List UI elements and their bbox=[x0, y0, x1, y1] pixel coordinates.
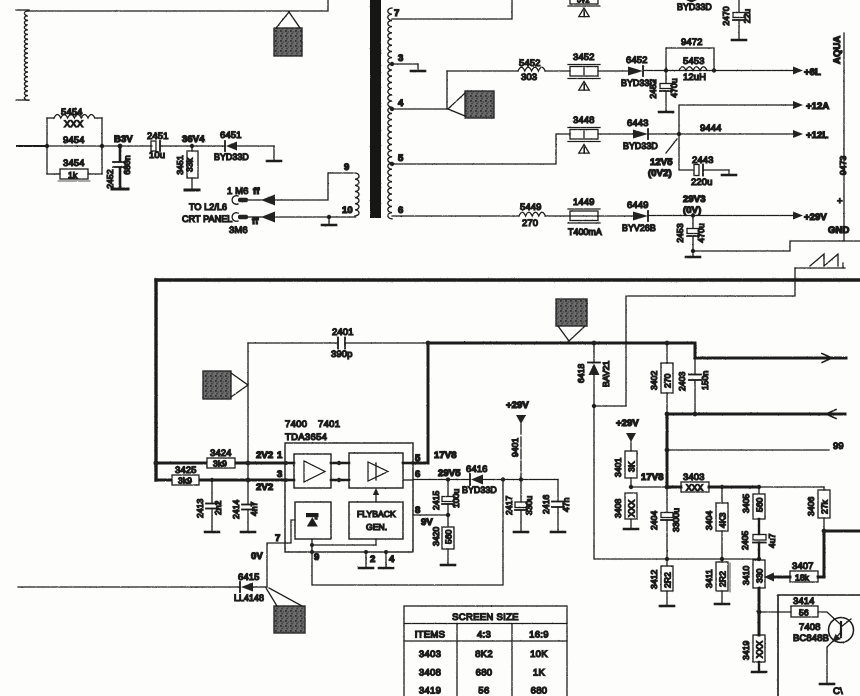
pin9 wire bbox=[312, 480, 503, 585]
svg-text:3403: 3403 bbox=[419, 649, 441, 660]
svg-text:TDA3654: TDA3654 bbox=[285, 432, 327, 443]
op-amp block 1 bbox=[294, 454, 331, 488]
winding L top-left primary bbox=[16, 10, 29, 100]
node + ground under coil10 line bbox=[327, 215, 331, 219]
wire vertical 2401 to pin1 bbox=[247, 343, 249, 504]
resistor 3410 330 bbox=[741, 560, 765, 635]
svg-text:33k: 33k bbox=[185, 157, 195, 172]
svg-text:6452: 6452 bbox=[626, 55, 648, 66]
wire pin4 up bbox=[446, 71, 448, 109]
wire thick flyback rail bbox=[428, 343, 846, 358]
svg-text:330: 330 bbox=[755, 568, 765, 583]
svg-text:3420: 3420 bbox=[431, 527, 441, 546]
fuse 3452 bbox=[568, 52, 600, 79]
svg-text:C\: C\ bbox=[833, 686, 843, 696]
svg-text:680n: 680n bbox=[122, 155, 132, 174]
svg-text:3451: 3451 bbox=[175, 155, 185, 174]
svg-text:6449: 6449 bbox=[627, 200, 649, 211]
svg-text:330u: 330u bbox=[524, 496, 534, 515]
wire pin5 to 3448 bbox=[392, 134, 570, 164]
pin8 wire bbox=[413, 514, 448, 516]
svg-text:2413: 2413 bbox=[195, 499, 205, 518]
svg-text:+29V: +29V bbox=[506, 400, 529, 411]
svg-text:5452: 5452 bbox=[519, 58, 541, 69]
svg-text:7400: 7400 bbox=[285, 419, 307, 430]
wire main line left bbox=[17, 145, 47, 147]
svg-text:9473: 9473 bbox=[838, 156, 848, 175]
svg-text:18k: 18k bbox=[795, 573, 810, 583]
svg-text:2414: 2414 bbox=[231, 500, 241, 519]
svg-text:270: 270 bbox=[522, 218, 538, 229]
node 29V3 bbox=[691, 213, 695, 217]
node 9444 bbox=[677, 132, 681, 136]
svg-text:3408: 3408 bbox=[613, 499, 623, 518]
node 2452 bbox=[664, 68, 668, 72]
resistor 3403 XXX bbox=[667, 472, 824, 493]
svg-text:GND: GND bbox=[828, 225, 849, 236]
svg-text:6: 6 bbox=[415, 469, 420, 480]
wire 99 line bbox=[667, 449, 829, 451]
svg-text:10u: 10u bbox=[149, 150, 165, 161]
svg-text:5: 5 bbox=[398, 153, 404, 164]
sawtooth waveform bbox=[795, 254, 845, 268]
svg-text:BYD33D: BYD33D bbox=[462, 485, 497, 495]
wire thick pin1 row bbox=[156, 462, 285, 465]
ground after 6451 bbox=[267, 146, 281, 161]
border thick left bbox=[154, 280, 157, 480]
wire 0V long bbox=[18, 586, 240, 588]
svg-text:100u: 100u bbox=[451, 489, 461, 508]
svg-text:4: 4 bbox=[389, 554, 395, 565]
svg-text:9472: 9472 bbox=[681, 37, 703, 48]
svg-text:10: 10 bbox=[342, 205, 353, 216]
inductor 5452 303 bbox=[518, 58, 545, 83]
svg-text:BC848B: BC848B bbox=[793, 633, 829, 644]
svg-text:BYD33D: BYD33D bbox=[214, 152, 249, 162]
pin6 wire row bbox=[413, 479, 470, 481]
resistor 3451 33k bbox=[175, 146, 199, 190]
capacitor 2404 3300u bbox=[649, 487, 681, 559]
svg-text:5: 5 bbox=[415, 453, 421, 464]
svg-text:3k9: 3k9 bbox=[213, 459, 227, 469]
diode 6449 BYV26B bbox=[622, 200, 656, 233]
wire thick pin3 row bbox=[156, 479, 285, 482]
shaded box F2 bbox=[556, 299, 587, 341]
svg-text:2452: 2452 bbox=[648, 79, 658, 98]
wire GND bbox=[693, 241, 860, 251]
svg-text:3412: 3412 bbox=[649, 570, 659, 589]
transformer core bbox=[370, 0, 381, 218]
svg-text:1k: 1k bbox=[68, 170, 78, 180]
svg-text:2V2: 2V2 bbox=[256, 482, 273, 493]
svg-text:3404: 3404 bbox=[704, 511, 714, 530]
svg-text:XXX: XXX bbox=[686, 483, 704, 493]
svg-text:ff: ff bbox=[253, 186, 260, 197]
svg-text:150n: 150n bbox=[700, 371, 710, 390]
svg-text:9444: 9444 bbox=[700, 123, 722, 134]
svg-text:9: 9 bbox=[344, 162, 349, 173]
svg-text:3419: 3419 bbox=[419, 686, 441, 696]
svg-text:220u: 220u bbox=[691, 177, 713, 188]
resistor 3420 560 bbox=[431, 515, 455, 565]
svg-text:ITEMS: ITEMS bbox=[415, 630, 446, 641]
svg-text:3402: 3402 bbox=[649, 371, 659, 390]
svg-text:0V2: 0V2 bbox=[577, 0, 590, 5]
svg-text:3407: 3407 bbox=[792, 561, 814, 572]
svg-text:BYD33D: BYD33D bbox=[677, 2, 712, 12]
svg-text:2451: 2451 bbox=[147, 131, 169, 142]
capacitor 2413 2n2 bbox=[195, 478, 223, 532]
resistor 3406 27k bbox=[806, 487, 830, 531]
svg-text:99: 99 bbox=[833, 441, 844, 452]
svg-text:2R2: 2R2 bbox=[663, 572, 673, 588]
table SCREEN SIZE bbox=[404, 606, 567, 696]
wire 6418 down-left rail bbox=[594, 406, 759, 559]
svg-text:8K2: 8K2 bbox=[475, 649, 493, 660]
svg-text:2n2: 2n2 bbox=[213, 500, 223, 515]
svg-text:6418: 6418 bbox=[576, 364, 586, 383]
svg-text:2443: 2443 bbox=[692, 155, 714, 166]
wire +12A bbox=[679, 105, 793, 134]
svg-text:2453: 2453 bbox=[675, 223, 685, 242]
capacitor 2414 4n7 bbox=[231, 500, 259, 532]
svg-text:BYV26B: BYV26B bbox=[622, 223, 656, 233]
svg-text:17V8: 17V8 bbox=[434, 450, 457, 461]
pin4 ground bbox=[384, 550, 388, 554]
svg-text:2404: 2404 bbox=[649, 511, 659, 530]
capacitor 2415 100u bbox=[431, 480, 461, 515]
transistor 7408 BC848B bbox=[793, 612, 854, 684]
svg-text:5453: 5453 bbox=[683, 56, 705, 67]
svg-text:+12A: +12A bbox=[806, 101, 829, 112]
svg-text:12V5: 12V5 bbox=[650, 157, 673, 168]
svg-text:2401: 2401 bbox=[332, 327, 354, 338]
svg-text:9V: 9V bbox=[421, 517, 433, 528]
svg-text:10K: 10K bbox=[530, 649, 548, 660]
svg-text:29V5: 29V5 bbox=[438, 468, 461, 479]
diode partial BYD33D top bbox=[677, 0, 712, 12]
svg-text:+29V: +29V bbox=[804, 212, 827, 223]
svg-text:3M6: 3M6 bbox=[229, 225, 248, 236]
svg-text:22u: 22u bbox=[742, 9, 752, 24]
svg-text:2470: 2470 bbox=[721, 6, 731, 25]
resistor 3408 XXX bbox=[613, 493, 638, 529]
svg-text:9: 9 bbox=[314, 552, 319, 563]
pin2 ground bbox=[364, 550, 368, 554]
svg-text:3452: 3452 bbox=[573, 52, 595, 63]
svg-text:3: 3 bbox=[398, 53, 403, 64]
svg-text:680: 680 bbox=[476, 668, 493, 679]
diode 6443 BYD33D bbox=[623, 118, 658, 151]
svg-text:T400mA: T400mA bbox=[568, 227, 602, 237]
node main-left bbox=[45, 144, 49, 148]
svg-text:+12L: +12L bbox=[806, 130, 828, 141]
warning triangle top bbox=[579, 8, 589, 17]
svg-text:3411: 3411 bbox=[704, 569, 714, 588]
svg-text:16:9: 16:9 bbox=[529, 630, 549, 641]
svg-text:29V3: 29V3 bbox=[683, 194, 706, 205]
power +29V arrow 3401 bbox=[616, 418, 639, 451]
inductor 5453 12uH bbox=[679, 56, 707, 83]
power +29V arrow 9401 bbox=[506, 400, 529, 479]
svg-text:XXX: XXX bbox=[627, 499, 637, 517]
wire to 3414 bbox=[759, 611, 791, 613]
svg-text:9454: 9454 bbox=[63, 135, 85, 146]
svg-text:(0V): (0V) bbox=[683, 205, 701, 216]
wire sawtooth feed bbox=[626, 268, 795, 406]
svg-text:SCREEN SIZE: SCREEN SIZE bbox=[452, 612, 519, 623]
svg-text:2415: 2415 bbox=[431, 491, 441, 510]
capacitor 2451 10u bbox=[147, 131, 169, 161]
svg-text:6451: 6451 bbox=[220, 130, 242, 141]
svg-text:LL4148: LL4148 bbox=[234, 593, 264, 603]
jumper 9472 bbox=[666, 37, 716, 73]
flyback gen block bbox=[349, 488, 403, 539]
arrow +8L bbox=[793, 67, 803, 75]
wire top-left to top edge bbox=[28, 0, 328, 11]
svg-text:GEN.: GEN. bbox=[366, 522, 387, 532]
svg-text:3425: 3425 bbox=[175, 465, 197, 476]
transformer secondary winding bbox=[388, 8, 392, 219]
svg-text:4:3: 4:3 bbox=[477, 630, 491, 641]
warning triangle 3448 bbox=[579, 145, 589, 154]
svg-text:2: 2 bbox=[370, 554, 375, 565]
svg-text:5454: 5454 bbox=[61, 107, 83, 118]
svg-text:3405: 3405 bbox=[741, 494, 751, 513]
diode 6451 BYD33D bbox=[214, 130, 274, 162]
svg-text:303: 303 bbox=[521, 72, 537, 83]
resistor 3419 XXX bbox=[741, 635, 766, 672]
svg-text:3403: 3403 bbox=[683, 472, 705, 483]
svg-text:680: 680 bbox=[531, 686, 548, 696]
capacitor 2452 470u bbox=[648, 71, 679, 112]
svg-text:+: + bbox=[837, 196, 843, 207]
svg-text:2403: 2403 bbox=[677, 372, 687, 391]
resistor 3411 2R2 bbox=[704, 559, 730, 604]
resistor 3454 1k bbox=[47, 158, 102, 181]
svg-text:1: 1 bbox=[277, 450, 283, 461]
svg-text:2405: 2405 bbox=[740, 531, 750, 550]
svg-text:3406: 3406 bbox=[806, 497, 816, 516]
svg-text:5449: 5449 bbox=[520, 202, 542, 213]
wire pin6 row bbox=[392, 215, 519, 217]
connector 1M6 to CRT panel bbox=[227, 173, 353, 206]
svg-text:3k9: 3k9 bbox=[178, 476, 192, 486]
wire thick 3402-3403 vertical bbox=[666, 414, 669, 487]
svg-text:7: 7 bbox=[394, 8, 399, 19]
shaded box A2 bbox=[203, 371, 248, 399]
capacitor 2443 220u bbox=[679, 134, 736, 188]
shaded box L2 bbox=[448, 91, 494, 118]
svg-text:3300u: 3300u bbox=[671, 508, 681, 532]
svg-text:3401: 3401 bbox=[613, 458, 623, 477]
resistor 3412 2R2 bbox=[649, 559, 674, 606]
capacitor 2401 390p bbox=[331, 327, 428, 360]
svg-text:56: 56 bbox=[478, 686, 489, 696]
border thick top bbox=[156, 278, 860, 281]
arrow +12L bbox=[793, 130, 803, 138]
svg-text:AQUA: AQUA bbox=[832, 36, 843, 64]
resistor 3425 3k9 bbox=[172, 465, 199, 486]
thermal prot block bbox=[295, 502, 331, 539]
svg-text:3419: 3419 bbox=[741, 641, 751, 660]
diode 6416 BYD33D bbox=[462, 464, 497, 495]
IC internal wires bbox=[285, 462, 294, 465]
svg-text:4: 4 bbox=[398, 98, 404, 109]
svg-text:2417: 2417 bbox=[504, 496, 514, 515]
warning triangle 3452 bbox=[579, 82, 589, 91]
wire 2401 row bbox=[248, 342, 337, 344]
wire thick mid rail bbox=[667, 413, 845, 416]
svg-text:56: 56 bbox=[799, 608, 809, 618]
row +8L : wire bbox=[447, 70, 518, 72]
capacitor 2403 150n bbox=[677, 358, 710, 414]
svg-text:4K3: 4K3 bbox=[718, 512, 728, 528]
svg-text:2V2: 2V2 bbox=[256, 450, 273, 461]
capacitor 2416 47n bbox=[541, 480, 571, 533]
svg-text:12uH: 12uH bbox=[683, 72, 706, 83]
capacitor 2470 22u bbox=[721, 0, 752, 40]
svg-text:6: 6 bbox=[398, 205, 403, 216]
svg-text:2452: 2452 bbox=[105, 169, 115, 188]
diode 6418 BAV21 bbox=[576, 343, 611, 406]
svg-text:9401: 9401 bbox=[510, 438, 520, 457]
inductor 5454 bbox=[47, 107, 102, 174]
svg-text:17V8: 17V8 bbox=[641, 472, 664, 483]
svg-text:47n: 47n bbox=[561, 497, 571, 512]
fuse 1449 T400mA bbox=[568, 197, 602, 237]
svg-text:3: 3 bbox=[277, 469, 282, 480]
svg-text:1449: 1449 bbox=[573, 197, 595, 208]
resistor 3414 56 bbox=[791, 596, 818, 618]
svg-text:6415: 6415 bbox=[238, 572, 260, 583]
diode 6415 LL4148 bbox=[234, 572, 267, 603]
svg-text:4n7: 4n7 bbox=[249, 501, 259, 516]
svg-text:+29V: +29V bbox=[616, 418, 639, 429]
svg-text:27k: 27k bbox=[820, 499, 830, 514]
border bottom-right block bbox=[778, 595, 860, 696]
coil CRT 9-10 bbox=[342, 162, 359, 216]
svg-text:6416: 6416 bbox=[466, 464, 488, 475]
resistor 3405 560 bbox=[741, 487, 765, 519]
svg-text:0V: 0V bbox=[251, 551, 263, 562]
svg-text:3424: 3424 bbox=[210, 448, 232, 459]
svg-text:560: 560 bbox=[444, 529, 454, 544]
capacitor 2417 330u bbox=[504, 480, 534, 532]
ground pin3 bbox=[392, 63, 418, 65]
op-amp block 2 bbox=[349, 453, 403, 488]
svg-text:3454: 3454 bbox=[63, 158, 85, 169]
svg-text:2R2: 2R2 bbox=[718, 571, 728, 587]
resistor 3407 18k bbox=[764, 561, 818, 583]
arrow +29V bbox=[793, 212, 803, 220]
svg-text:3K: 3K bbox=[627, 461, 637, 472]
capacitor 2452 680n bbox=[105, 146, 132, 189]
inductor 5449 270 bbox=[519, 202, 545, 229]
svg-text:270: 270 bbox=[663, 373, 673, 388]
capacitor 2453 470u bbox=[675, 216, 706, 257]
svg-text:7: 7 bbox=[275, 533, 280, 544]
pin7 wire bbox=[267, 520, 295, 587]
svg-text:7408: 7408 bbox=[799, 622, 821, 633]
svg-text:XXX: XXX bbox=[755, 640, 765, 658]
svg-text:BYD33D: BYD33D bbox=[623, 141, 658, 151]
resistor 3404 4K3 bbox=[704, 487, 728, 559]
svg-text:TO L2/L6: TO L2/L6 bbox=[189, 202, 227, 212]
svg-text:470u: 470u bbox=[696, 223, 706, 242]
resistor 3401 3K bbox=[613, 451, 637, 487]
svg-text:CRT PANEL: CRT PANEL bbox=[182, 214, 232, 224]
svg-text:+8L: +8L bbox=[804, 67, 821, 78]
svg-text:XXX: XXX bbox=[64, 119, 84, 130]
svg-text:3410: 3410 bbox=[741, 566, 751, 585]
svg-text:1K: 1K bbox=[533, 668, 546, 679]
connector 3M6 bbox=[229, 212, 355, 237]
svg-text:FLYBACK: FLYBACK bbox=[357, 509, 396, 519]
svg-text:BAV21: BAV21 bbox=[601, 360, 611, 387]
fuse partial top bbox=[568, 0, 600, 6]
svg-text:7401: 7401 bbox=[318, 419, 340, 430]
svg-text:6443: 6443 bbox=[627, 118, 649, 129]
shaded box L3 bbox=[274, 12, 302, 56]
svg-text:36V4: 36V4 bbox=[182, 134, 205, 145]
svg-text:4u7: 4u7 bbox=[767, 533, 777, 548]
resistor 3424 3k9 bbox=[207, 448, 235, 469]
capacitor 2405 4u7 bbox=[740, 519, 777, 559]
svg-text:3414: 3414 bbox=[793, 596, 815, 607]
svg-text:470u: 470u bbox=[669, 78, 679, 97]
svg-text:3408: 3408 bbox=[419, 668, 441, 679]
svg-text:ff: ff bbox=[252, 216, 259, 227]
svg-text:2416: 2416 bbox=[541, 495, 551, 514]
fuse 3448 bbox=[568, 115, 600, 142]
shaded box F1 bbox=[266, 588, 305, 633]
wire thick right loop 3407 bbox=[818, 531, 860, 577]
svg-text:560: 560 bbox=[755, 497, 765, 512]
svg-text:390p: 390p bbox=[331, 349, 353, 360]
svg-text:B3V: B3V bbox=[114, 134, 133, 145]
svg-text:(0V2): (0V2) bbox=[648, 168, 672, 179]
svg-text:3448: 3448 bbox=[573, 115, 595, 126]
diode 6452 BYD33D bbox=[621, 55, 656, 88]
resistor 3402 270 bbox=[649, 343, 673, 414]
